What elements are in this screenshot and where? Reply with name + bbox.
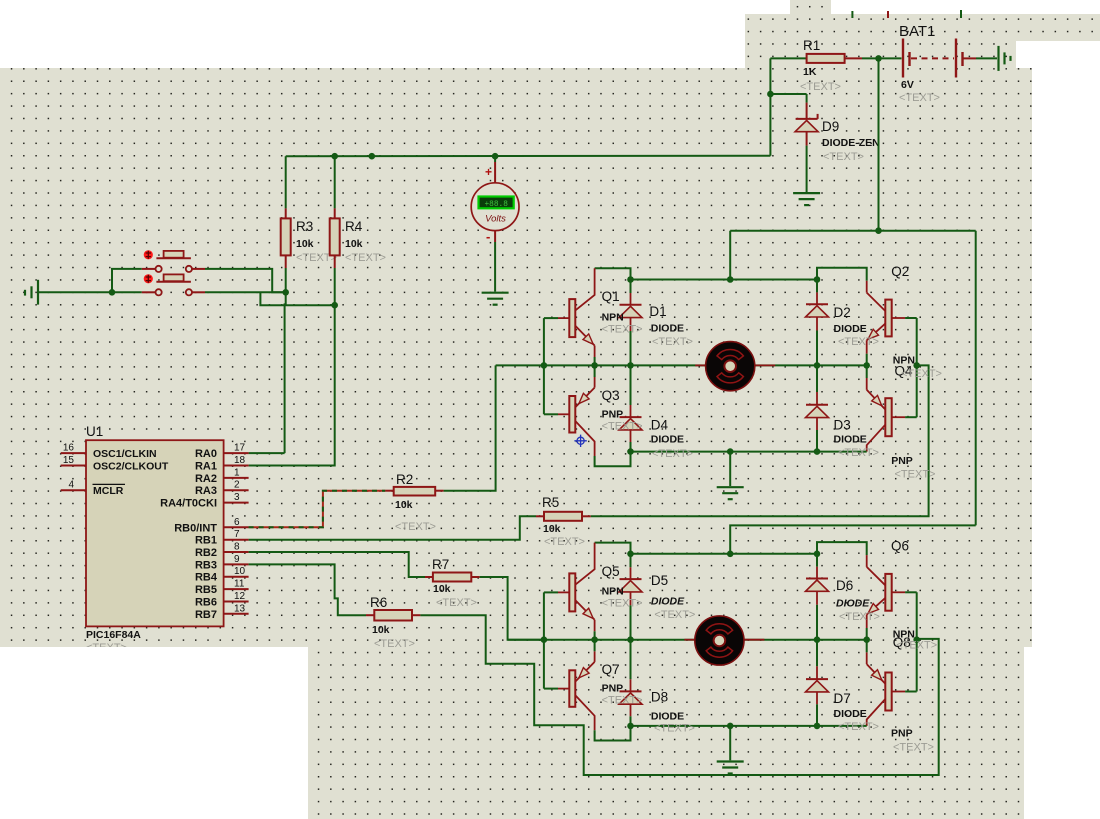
svg-text:+: +: [485, 165, 492, 179]
wire ground to button1: [38, 291, 142, 293]
transistor Q3 (PNP left): [594, 377, 596, 388]
wire left bases column: [543, 592, 545, 688]
motor: [706, 342, 755, 391]
battery BAT1 cell2 long plate: [955, 39, 957, 78]
pin 3 RA4/T0CKI: [224, 502, 249, 504]
svg-text:R1: R1: [803, 38, 820, 53]
node mid emitter-R: [863, 362, 870, 369]
svg-text:Q7: Q7: [602, 662, 620, 677]
node rail feed: [727, 551, 734, 558]
svg-text:<TEXT>: <TEXT>: [899, 92, 940, 104]
svg-text:<TEXT>: <TEXT>: [838, 721, 879, 733]
pin base Q2: [892, 317, 905, 319]
svg-text:D7: D7: [834, 691, 851, 706]
wire R7 to lower bridge rail: [480, 577, 546, 640]
diode D8: [620, 690, 642, 692]
origin marker (blue): [574, 435, 586, 447]
svg-text:DIODE: DIODE: [836, 597, 870, 609]
transistor Q5 (NPN left): [575, 543, 594, 585]
svg-text:8: 8: [234, 542, 240, 553]
wire R1 right to battery node: [845, 57, 862, 59]
svg-text:4: 4: [68, 480, 74, 491]
svg-text:RB3: RB3: [195, 559, 217, 571]
resistor R4 pin top: [334, 208, 336, 218]
battery dashed link: [911, 57, 954, 59]
wire to ground: [729, 726, 731, 760]
svg-text:<TEXT>: <TEXT>: [901, 368, 942, 380]
svg-text:-: -: [486, 229, 490, 244]
diode D6 pins: [816, 554, 818, 567]
wire button1 right run: [205, 269, 286, 292]
resistor R7 pin right: [471, 576, 479, 578]
svg-text:10k: 10k: [345, 238, 363, 250]
ground battery (rotated): [997, 46, 999, 71]
diode D7 pins: [816, 640, 818, 667]
svg-text:NPN: NPN: [602, 312, 624, 324]
pin base Q5: [544, 591, 558, 593]
node battery junction: [875, 55, 882, 62]
switch button lower cap: [164, 274, 184, 281]
pin 2 RA3: [224, 489, 249, 491]
svg-text:10k: 10k: [433, 583, 451, 595]
diode D6: [806, 578, 828, 580]
svg-text:<TEXT>: <TEXT>: [602, 421, 643, 433]
svg-text:Q2: Q2: [891, 264, 909, 279]
diode D4: [620, 416, 642, 418]
wire battery to ground: [963, 57, 977, 59]
svg-text:RA0: RA0: [195, 448, 217, 460]
wire node to D9 top: [770, 93, 806, 95]
op-amp U1 body (PIC16F84A): [86, 440, 224, 626]
resistor R5: [544, 512, 582, 521]
node rail R4: [331, 153, 338, 160]
svg-text:11: 11: [234, 579, 245, 590]
pin 13 RB7: [224, 613, 249, 615]
motor pin right: [755, 364, 775, 366]
ground switch rail (rotated, mirrored): [37, 280, 39, 305]
pin 10 RB4: [224, 576, 249, 578]
diode D5: [620, 578, 642, 580]
svg-text:R5: R5: [542, 495, 559, 510]
wire node to battery: [879, 57, 902, 59]
svg-text:Q1: Q1: [602, 289, 620, 304]
svg-text:RB0/INT: RB0/INT: [174, 522, 217, 534]
svg-text:D6: D6: [836, 578, 853, 593]
svg-text:RB5: RB5: [195, 584, 217, 596]
switch button upper pin L: [142, 268, 156, 270]
svg-text:BAT1: BAT1: [899, 23, 935, 40]
svg-text:R4: R4: [345, 219, 363, 234]
svg-text:13: 13: [234, 603, 246, 614]
resistor R3: [281, 218, 291, 255]
wire R1 left to corner: [770, 57, 806, 59]
pin 1 RA2: [224, 477, 249, 479]
motor: [695, 616, 744, 665]
switch button lower actuator: [144, 274, 153, 283]
switch button upper terminal R: [186, 266, 192, 272]
transistor Q4 (PNP right): [866, 378, 868, 390]
wire rail jog right: [817, 542, 867, 555]
node mid D5/D8: [627, 636, 634, 643]
svg-text:PNP: PNP: [602, 683, 624, 695]
pin 17 RA0: [224, 452, 249, 454]
svg-text:6V: 6V: [901, 79, 914, 91]
wire +V feed upper: [729, 231, 731, 280]
diode D9 pin top: [806, 103, 808, 119]
resistor R3 pin top: [285, 208, 287, 218]
diode D2 pins: [816, 280, 818, 293]
wire stub tick 3 (top edge): [960, 10, 962, 18]
resistor R6: [374, 610, 412, 621]
motor pin right: [744, 639, 764, 641]
wire RB3 run: [249, 564, 366, 615]
pin base Q3: [544, 413, 558, 415]
resistor R6 pin right: [412, 614, 420, 616]
svg-text:Volts: Volts: [485, 214, 506, 225]
svg-text:D3: D3: [834, 418, 851, 433]
svg-text:R7: R7: [432, 557, 449, 572]
wire switch rail jog: [260, 292, 334, 305]
wire R6 to Q6/Q8 bases: [420, 615, 938, 775]
switch button lower terminal R: [186, 289, 192, 295]
svg-text:<TEXT>: <TEXT>: [652, 336, 693, 348]
svg-text:D2: D2: [834, 305, 851, 320]
svg-text:R2: R2: [396, 472, 413, 487]
svg-text:R6: R6: [370, 595, 387, 610]
svg-text:10k: 10k: [543, 523, 561, 535]
wire bottom rail: [631, 725, 867, 727]
switch button upper cap: [164, 251, 184, 258]
wire +V top rail: [730, 230, 976, 232]
wire R5 to Q2/Q4 bases: [591, 365, 929, 516]
svg-text:DIODE-ZEN: DIODE-ZEN: [822, 137, 880, 149]
node rail D1: [627, 276, 634, 283]
svg-text:<TEXT>: <TEXT>: [838, 447, 879, 459]
node bottom D1: [627, 448, 634, 455]
wire RB0 dashed run (green dashes): [249, 491, 386, 528]
node mid emitter-L: [591, 636, 598, 643]
svg-text:DIODE: DIODE: [834, 434, 867, 446]
switch button upper pin R: [192, 268, 205, 270]
resistor R5 pin left: [536, 515, 544, 517]
diode D3 pins: [816, 365, 818, 392]
node switch R3 junction: [282, 289, 289, 296]
node R1/D9 junction: [767, 91, 774, 98]
svg-text:DIODE: DIODE: [651, 711, 684, 723]
wire top rail (Q1 bridge): [631, 279, 818, 281]
ground voltmeter: [482, 292, 509, 294]
wire rail jog right: [817, 268, 867, 281]
wire RB2 run: [249, 552, 425, 577]
wire collector path left: [595, 268, 631, 279]
svg-text:PNP: PNP: [602, 409, 624, 421]
wire right bases column: [916, 592, 918, 691]
svg-text:<TEXT>: <TEXT>: [654, 723, 695, 735]
svg-text:Q5: Q5: [602, 564, 620, 579]
svg-text:<TEXT>: <TEXT>: [602, 695, 643, 707]
svg-text:<TEXT>: <TEXT>: [436, 597, 477, 609]
svg-text:RB4: RB4: [195, 572, 218, 584]
wire RA1 riser: [249, 305, 335, 465]
svg-text:10k: 10k: [395, 499, 413, 511]
node rail D6: [814, 551, 821, 558]
svg-text:+88.8: +88.8: [484, 201, 508, 209]
resistor R2: [394, 487, 436, 496]
svg-text:<TEXT>: <TEXT>: [602, 324, 643, 336]
wire top rail (Q5 bridge): [631, 553, 818, 555]
svg-text:Q3: Q3: [602, 388, 620, 403]
diode D7: [806, 678, 828, 680]
switch button upper bar: [156, 257, 191, 259]
wire R3 to switch node: [285, 268, 287, 292]
wire RA0 run: [249, 452, 285, 454]
wire rail corner to R3: [285, 156, 287, 208]
diode D1: [620, 304, 642, 306]
battery BAT1 cell2 short plate: [961, 52, 963, 66]
svg-text:12: 12: [234, 591, 246, 602]
resistor R2 pin right: [435, 490, 443, 492]
svg-text:OSC2/CLKOUT: OSC2/CLKOUT: [93, 461, 169, 473]
svg-text:RB1: RB1: [195, 535, 217, 547]
motor pin left: [695, 364, 705, 366]
diode D9 zener: [796, 118, 818, 120]
wire corner down to node: [769, 58, 771, 94]
wire stub tick 2 (top edge): [887, 11, 889, 18]
pin base Q7: [544, 688, 558, 690]
node rail voltmeter: [492, 153, 499, 160]
wire R2 to upper bridge rail: [444, 365, 496, 490]
diode D1 pins: [630, 280, 632, 294]
wire node down to rail: [769, 94, 771, 156]
ground bridge: [717, 760, 744, 762]
resistor R7 pin left: [425, 576, 433, 578]
pin 8 RB2: [224, 551, 249, 553]
svg-text:<TEXT>: <TEXT>: [652, 448, 693, 460]
switch button lower bar: [156, 281, 191, 283]
svg-text:<TEXT>: <TEXT>: [893, 742, 934, 754]
wire to ground: [729, 452, 731, 486]
switch button upper terminal L: [156, 266, 162, 272]
motor pin left: [684, 639, 694, 641]
svg-text:NPN: NPN: [602, 586, 624, 598]
svg-text:<TEXT>: <TEXT>: [395, 521, 436, 533]
svg-text:<TEXT>: <TEXT>: [345, 252, 386, 264]
svg-text:DIODE: DIODE: [834, 708, 867, 720]
pin base Q1: [544, 317, 558, 319]
wire right bases column: [916, 318, 918, 417]
switch button lower pin R: [192, 291, 205, 293]
diode D8 pins: [630, 640, 632, 680]
svg-text:PIC16F84A: PIC16F84A: [86, 629, 141, 641]
node rail x372: [369, 153, 376, 160]
svg-text:<TEXT>: <TEXT>: [654, 609, 695, 621]
diode D3: [806, 404, 828, 406]
pin 7 RB1: [224, 539, 249, 541]
svg-text:RB6: RB6: [195, 597, 217, 609]
ground D9: [793, 192, 820, 194]
pin 11 RB5: [224, 588, 249, 590]
diode D4 pins: [630, 365, 632, 405]
diode D2: [806, 303, 828, 305]
switch button lower pin L: [142, 291, 156, 293]
svg-text:17: 17: [234, 443, 246, 454]
wire button2 to junction: [205, 291, 286, 293]
voltmeter lcd: [479, 197, 514, 209]
svg-text:DIODE: DIODE: [651, 596, 685, 608]
node mid bases-L: [541, 636, 548, 643]
svg-text:D9: D9: [822, 119, 839, 134]
node mid bases-L: [541, 362, 548, 369]
svg-text:DIODE: DIODE: [834, 323, 867, 335]
svg-text:<TEXT>: <TEXT>: [602, 598, 643, 610]
svg-text:RA2: RA2: [195, 473, 217, 485]
ground bridge: [717, 486, 744, 488]
svg-text:D5: D5: [651, 573, 668, 588]
diode D5 pins: [630, 554, 632, 568]
wire D9 to ground: [806, 146, 808, 192]
svg-text:D4: D4: [651, 418, 669, 433]
transistor Q6 (NPN right): [866, 555, 868, 567]
node rail D2: [814, 276, 821, 283]
svg-text:9: 9: [234, 554, 240, 565]
wire RB1 run: [249, 516, 536, 539]
svg-text:D8: D8: [651, 690, 668, 705]
svg-text:<TEXT>: <TEXT>: [374, 638, 415, 650]
voltmeter pin -: [494, 231, 496, 242]
pin 12 RB6: [224, 601, 249, 603]
node bottom D7: [814, 723, 821, 730]
wire middle rail: [496, 364, 867, 366]
wire R4 down to node: [334, 268, 336, 305]
voltmeter pin +: [494, 156, 496, 162]
node rail D5: [627, 551, 634, 558]
svg-text:D1: D1: [649, 304, 666, 319]
svg-text:<TEXT>: <TEXT>: [896, 640, 937, 652]
svg-text:PNP: PNP: [891, 455, 913, 467]
svg-text:10k: 10k: [372, 624, 390, 636]
wire branch up to button2: [112, 269, 142, 292]
transistor Q8 (PNP right): [866, 652, 868, 664]
wire bottom rail: [631, 451, 867, 453]
svg-text:RB2: RB2: [195, 547, 217, 559]
wire +V rail down from battery node: [878, 58, 880, 230]
transistor Q7 (PNP left): [594, 651, 596, 662]
svg-text:OSC1/CLKIN: OSC1/CLKIN: [93, 448, 157, 460]
node +V: [875, 227, 882, 234]
svg-text:U1: U1: [86, 424, 103, 439]
resistor R4 pin bottom: [334, 255, 336, 268]
node mid D6/D7: [814, 636, 821, 643]
wire +V feed lower: [730, 525, 976, 553]
transistor Q2 (NPN right): [866, 281, 868, 293]
battery BAT1 cell1 short plate: [908, 52, 910, 66]
svg-text:<TEXT>: <TEXT>: [800, 81, 841, 93]
wire +V right drop: [975, 231, 977, 526]
resistor R7: [433, 573, 471, 582]
wire stub tick 1 (top edge): [851, 11, 853, 18]
svg-text:6: 6: [234, 517, 240, 528]
svg-text:16: 16: [63, 443, 75, 454]
resistor R6 pin left: [366, 614, 374, 616]
wire junction down to RA0 run: [285, 292, 286, 453]
svg-text:<TEXT>: <TEXT>: [823, 151, 864, 163]
svg-text:1K: 1K: [803, 66, 817, 78]
resistor R2 pin left: [385, 490, 393, 492]
svg-text:RA3: RA3: [195, 485, 217, 497]
wire collector path left: [595, 543, 631, 554]
pin 6 RB0/INT: [224, 526, 249, 528]
svg-text:RA1: RA1: [195, 461, 217, 473]
switch button lower terminal L: [156, 289, 162, 295]
svg-text:MCLR: MCLR: [93, 485, 124, 497]
node mid emitter-R: [863, 636, 870, 643]
node bottom D3: [814, 448, 821, 455]
svg-text:<TEXT>: <TEXT>: [895, 469, 936, 481]
svg-text:R3: R3: [296, 219, 313, 234]
svg-text:RA4/T0CKI: RA4/T0CKI: [160, 498, 217, 510]
svg-text:15: 15: [63, 455, 75, 466]
pin 16 OSC1/CLKIN: [61, 452, 86, 454]
node bottom gnd: [727, 723, 734, 730]
svg-text:3: 3: [234, 492, 240, 503]
wire top rail y156: [286, 155, 771, 157]
resistor R5 pin right: [582, 515, 591, 517]
node rail feed: [727, 276, 734, 283]
pin base Q4: [892, 416, 905, 418]
pin 18 RA1: [224, 465, 249, 467]
resistor R4: [330, 218, 340, 255]
switch button upper actuator: [144, 250, 153, 259]
svg-text:Q6: Q6: [891, 539, 909, 554]
svg-text:7: 7: [234, 529, 240, 540]
node button branch: [109, 289, 116, 296]
white margin overlay bottom-left: [0, 647, 308, 819]
pin 4 MCLR: [61, 489, 86, 491]
node bottom D5: [627, 723, 634, 730]
transistor Q1 (NPN left): [575, 268, 594, 310]
node bottom gnd: [727, 448, 734, 455]
wire middle rail: [508, 639, 867, 641]
pin base Q6: [892, 591, 905, 593]
svg-text:1: 1: [234, 467, 240, 478]
svg-text:DIODE: DIODE: [651, 323, 684, 335]
svg-text:10k: 10k: [296, 238, 314, 250]
node R4/RA1 junction: [331, 302, 338, 309]
svg-text:2: 2: [234, 480, 240, 491]
svg-text:<TEXT>: <TEXT>: [838, 336, 879, 348]
voltmeter body: [471, 183, 519, 231]
node mid bases-R: [913, 362, 920, 369]
node mid D1/D4: [627, 362, 634, 369]
node mid D2/D3: [814, 362, 821, 369]
resistor R1: [807, 54, 845, 63]
node mid bases-R: [913, 636, 920, 643]
svg-text:RB7: RB7: [195, 609, 217, 621]
svg-text:<TEXT>: <TEXT>: [839, 611, 880, 623]
wire rail to R4: [334, 156, 336, 208]
resistor R3 pin bottom: [285, 255, 287, 268]
svg-text:PNP: PNP: [891, 728, 913, 740]
pin base Q8: [892, 691, 905, 693]
node mid emitter-L: [591, 362, 598, 369]
svg-text:<TEXT>: <TEXT>: [544, 536, 585, 548]
pin 15 OSC2/CLKOUT: [61, 465, 86, 467]
wire RB0 dashed run (red base): [249, 491, 386, 528]
wire voltmeter to ground: [494, 242, 496, 292]
pin 9 RB3: [224, 563, 249, 565]
diode D9 pin bottom: [806, 132, 808, 146]
svg-text:10: 10: [234, 566, 246, 577]
